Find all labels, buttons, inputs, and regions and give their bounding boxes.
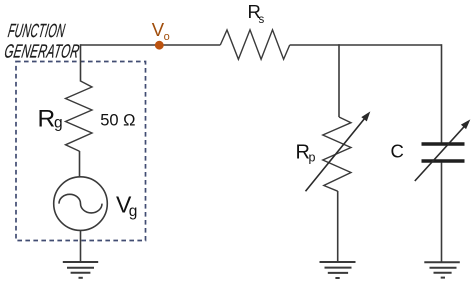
function generator dashed box bbox=[16, 62, 146, 241]
resistor Rs bbox=[220, 1, 289, 59]
ground (C branch) bbox=[424, 262, 460, 277]
arrow through Rp bbox=[306, 118, 365, 191]
svg-text:s: s bbox=[259, 14, 265, 26]
svg-text:g: g bbox=[129, 203, 138, 220]
wire: C branch vertical top bbox=[441, 44, 443, 142]
svg-text:R: R bbox=[38, 105, 56, 132]
wire: Rp branch vertical top bbox=[338, 44, 340, 117]
ground (function generator) bbox=[63, 262, 98, 278]
capacitor C (variable) bbox=[391, 120, 470, 181]
wire: Vg to ground bbox=[80, 230, 82, 262]
wire: vertical drop from corner into FG box bbox=[80, 44, 82, 81]
svg-text:50 Ω: 50 Ω bbox=[100, 112, 135, 130]
node Vo bbox=[152, 19, 170, 50]
svg-text:g: g bbox=[54, 115, 63, 132]
wire: Rg to Vg bbox=[79, 151, 81, 177]
svg-text:o: o bbox=[164, 31, 170, 43]
wire: Rp to ground bbox=[337, 191, 339, 262]
ground (Rp branch) bbox=[320, 262, 356, 278]
svg-text:GENERATOR: GENERATOR bbox=[3, 42, 81, 62]
wire: top horizontal right (Rs to C branch) bbox=[290, 44, 442, 46]
arrow through C bbox=[415, 127, 464, 181]
wire: C to ground bbox=[441, 163, 443, 263]
resistor Rg bbox=[38, 81, 136, 151]
resistor Rp (variable) bbox=[296, 112, 370, 191]
svg-text:FUNCTION: FUNCTION bbox=[6, 21, 66, 42]
wire: top horizontal left (FG corner to Rs) bbox=[81, 44, 221, 46]
svg-text:p: p bbox=[309, 151, 316, 165]
svg-text:C: C bbox=[391, 141, 404, 162]
source Vg bbox=[54, 177, 138, 231]
FUNCTION GENERATOR label bbox=[3, 21, 81, 62]
